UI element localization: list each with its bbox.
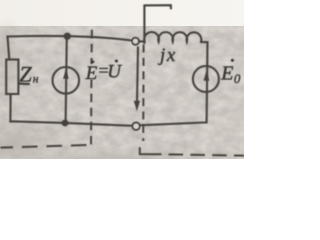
svg-text:0: 0 bbox=[234, 71, 241, 86]
svg-text:x: x bbox=[166, 45, 176, 66]
svg-text:н: н bbox=[33, 74, 39, 86]
svg-text:E: E bbox=[220, 62, 233, 84]
svg-text:E: E bbox=[85, 63, 98, 84]
svg-text:U: U bbox=[107, 62, 122, 83]
